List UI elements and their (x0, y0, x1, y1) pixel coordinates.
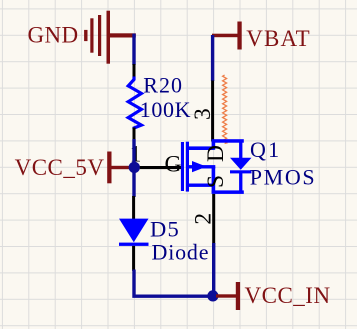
ground GND power symbol (84, 11, 136, 64)
diode link bottom (239, 173, 242, 192)
svg-text:R20: R20 (143, 73, 183, 98)
svg-text:3: 3 (190, 108, 216, 120)
rail top segment (212, 141, 216, 150)
bottom frame (212, 190, 244, 194)
resistor R20 body (128, 77, 141, 130)
transistor Q1 drain pin 3 (211, 81, 214, 142)
wire R20 to junction to D5 (132, 139, 135, 197)
transistor Q1 source pin 2 (212, 194, 215, 244)
svg-text:2: 2 (190, 213, 216, 225)
node junction VCC_IN (207, 290, 218, 301)
svg-text:Q1: Q1 (250, 137, 281, 162)
diode D5 pin top (pin 1) (132, 196, 135, 220)
svg-text:G: G (165, 152, 182, 178)
channel bar (186, 142, 189, 192)
source stub (189, 184, 214, 187)
bulk arrow (192, 161, 207, 172)
wire Q1 source to VCC_IN junction (212, 243, 215, 296)
body diode triangle (230, 158, 252, 170)
svg-text:GND: GND (28, 22, 79, 47)
drain stub (189, 146, 214, 150)
svg-text:100K: 100K (140, 97, 191, 122)
svg-text:S: S (203, 175, 229, 188)
svg-text:D5: D5 (150, 217, 180, 242)
wire VBAT to Q1 drain (211, 35, 214, 81)
diode D5 pin bottom (pin 2) (132, 246, 135, 271)
gate bar (181, 142, 184, 191)
wire D5 to bottom rail (134, 270, 208, 297)
wire GND to R20 (132, 34, 135, 65)
body diode bar (230, 170, 252, 173)
power port VCC_5V (107, 152, 111, 184)
svg-text:VCC_5V: VCC_5V (15, 155, 105, 180)
svg-text:VBAT: VBAT (246, 26, 310, 51)
diode link top (239, 141, 242, 159)
svg-text:Diode: Diode (152, 240, 210, 265)
resistor R20 pin top (pin 1) (133, 64, 136, 77)
rail bottom segment (212, 167, 216, 193)
resistor R20 pin bottom (pin 2) (133, 128, 136, 141)
transistor Q1 gate pin 1 (140, 166, 181, 169)
transistor Q1 body (181, 139, 252, 194)
svg-text:D: D (203, 145, 229, 162)
power port VCC_IN (236, 282, 240, 310)
svg-text:PMOS: PMOS (250, 165, 317, 190)
power port VBAT (237, 22, 241, 50)
top frame (212, 139, 244, 143)
svg-text:VCC_IN: VCC_IN (245, 283, 331, 308)
bulk stub (189, 165, 215, 168)
node junction VCC_5V (129, 162, 140, 173)
diode D5 body (119, 219, 149, 243)
compile-warning squiggle (223, 75, 227, 144)
